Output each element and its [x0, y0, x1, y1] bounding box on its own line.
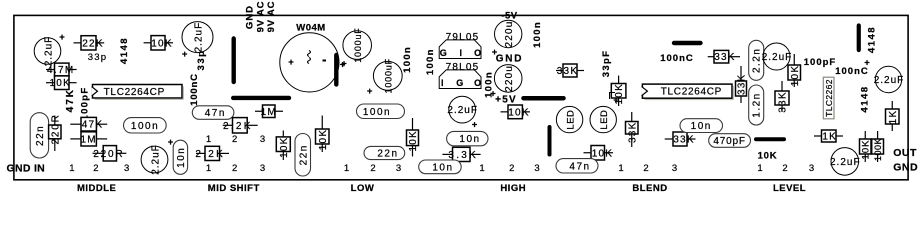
wire jumper (vertical, top right)	[857, 26, 861, 51]
svg-text:2.2uF: 2.2uF	[762, 52, 793, 63]
resistor 1K (output)	[886, 101, 900, 131]
svg-text:100n: 100n	[363, 107, 391, 118]
svg-text:100nC: 100nC	[189, 73, 200, 106]
svg-text:220R: 220R	[50, 113, 61, 144]
svg-text:3: 3	[260, 134, 265, 145]
svg-text:47K: 47K	[82, 120, 103, 131]
svg-text:1: 1	[757, 163, 762, 174]
svg-text:+: +	[59, 32, 65, 43]
resistor 33K (supply)	[556, 64, 584, 77]
svg-text:9V AC: 9V AC	[255, 1, 266, 33]
svg-text:+: +	[340, 60, 346, 71]
svg-text:22n: 22n	[377, 149, 398, 160]
svg-text:10K: 10K	[592, 148, 613, 159]
resistor 2.2K (lower)	[195, 146, 229, 160]
svg-text:1: 1	[206, 163, 211, 174]
svg-text:G: G	[440, 48, 447, 58]
resistor 10K (blend top)	[611, 76, 626, 106]
svg-text:I: I	[441, 78, 444, 88]
svg-text:+: +	[182, 49, 188, 60]
svg-text:2.2uF: 2.2uF	[151, 144, 162, 175]
svg-text:10K: 10K	[861, 140, 872, 160]
svg-text:33p: 33p	[88, 52, 107, 63]
resistor 2.2K (upper)	[223, 118, 258, 133]
svg-text:GND: GND	[893, 162, 918, 174]
svg-text:78L05: 78L05	[446, 62, 480, 73]
capacitor C2 2.2uF electrolytic (supply)	[182, 22, 213, 60]
svg-text:1: 1	[344, 163, 349, 174]
wire jumper (vertical, rectifier out)	[334, 55, 338, 85]
svg-text:79L05: 79L05	[446, 32, 480, 43]
resistor 1K (level)	[814, 130, 843, 143]
capacitor 1.2n	[749, 85, 764, 125]
resistor 220R (vertical)	[49, 113, 62, 151]
svg-text:MIDDLE: MIDDLE	[77, 183, 116, 194]
svg-text:220u: 220u	[504, 20, 515, 47]
svg-text:LED: LED	[565, 110, 576, 130]
svg-text:OUT: OUT	[893, 147, 917, 159]
capacitor 470pF	[709, 134, 751, 148]
svg-text:10K: 10K	[508, 107, 529, 118]
svg-text:470pF: 470pF	[713, 136, 745, 147]
svg-text:TLC2262: TLC2262	[824, 79, 834, 117]
svg-text:2.2K: 2.2K	[195, 149, 225, 160]
svg-text:33K: 33K	[778, 91, 789, 112]
svg-text:33K: 33K	[737, 74, 748, 95]
svg-text:2.2uF: 2.2uF	[447, 105, 478, 116]
resistor 1M	[70, 132, 107, 146]
svg-text:LED: LED	[599, 110, 610, 130]
svg-text:1M: 1M	[261, 107, 277, 118]
resistor 47K	[70, 117, 107, 131]
svg-text:100n: 100n	[402, 46, 413, 73]
resistor 4.7M	[46, 63, 77, 76]
svg-text:GND IN: GND IN	[7, 163, 46, 175]
svg-text:10n: 10n	[176, 147, 187, 168]
wire jumper (horizontal, +5V rail)	[524, 96, 564, 101]
svg-text:2.2uF: 2.2uF	[194, 22, 205, 53]
svg-text:4148: 4148	[867, 26, 878, 53]
svg-text:47n: 47n	[569, 161, 590, 172]
capacitor 220u (positive rail)	[494, 65, 522, 93]
svg-text:10K: 10K	[408, 130, 419, 151]
board outline frame	[14, 15, 908, 179]
resistor 22K	[74, 36, 105, 50]
svg-text:3: 3	[534, 163, 539, 174]
svg-text:100pF: 100pF	[804, 57, 836, 68]
capacitor 10n (high upper)	[447, 131, 488, 145]
svg-text:1K: 1K	[888, 110, 899, 125]
svg-text:4148: 4148	[119, 37, 130, 64]
capacitor 47n (mid pill)	[192, 106, 234, 120]
svg-text:BLEND: BLEND	[632, 183, 667, 194]
capacitor 2.2uF electrolytic (level top)	[762, 43, 793, 70]
capacitor 22n (low pill)	[364, 146, 405, 159]
svg-text:2.2uF: 2.2uF	[874, 75, 905, 86]
svg-text:1.2n: 1.2n	[752, 92, 763, 117]
svg-text:47n: 47n	[205, 108, 226, 119]
svg-text:10n: 10n	[432, 162, 453, 173]
svg-text:10n: 10n	[459, 134, 480, 145]
svg-text:22n: 22n	[35, 125, 46, 146]
resistor 33K (blend right)	[665, 132, 696, 146]
resistor 1M (mid)	[255, 105, 283, 118]
svg-text:9V AC: 9V AC	[266, 1, 277, 33]
capacitor 1000uF (lower)	[367, 58, 402, 97]
regulator 78L05	[439, 62, 481, 88]
svg-text:TLC2264CP: TLC2264CP	[104, 87, 165, 98]
svg-text:4148: 4148	[859, 85, 870, 112]
svg-text:10K: 10K	[790, 65, 801, 86]
capacitor C1 2.2uF electrolytic (input)	[34, 32, 65, 66]
svg-text:33K: 33K	[557, 66, 578, 77]
capacitor 22n (input pill)	[30, 113, 48, 158]
svg-text:2.2K: 2.2K	[223, 121, 253, 132]
capacitor 2.2uF electrolytic (output)	[874, 66, 905, 92]
svg-text:33K: 33K	[714, 52, 735, 63]
svg-text:2: 2	[643, 163, 648, 174]
svg-text:MID SHIFT: MID SHIFT	[208, 183, 260, 194]
node + (LED anode mark)	[610, 93, 620, 106]
svg-text:LOW: LOW	[351, 183, 375, 194]
resistor 10K (mid b)	[316, 116, 330, 153]
resistor 10K (top row)	[144, 36, 173, 50]
svg-text:100nC: 100nC	[660, 53, 694, 64]
svg-text:10K: 10K	[151, 38, 172, 49]
svg-text:1000uF: 1000uF	[383, 58, 393, 93]
capacitor 47n (blend pill)	[556, 159, 598, 173]
svg-text:4.7M: 4.7M	[47, 65, 74, 76]
capacitor 10n (vertical pill)	[173, 140, 187, 174]
svg-text:1: 1	[69, 163, 74, 174]
svg-text:3.3K: 3.3K	[448, 150, 478, 161]
resistor 10K (low)	[407, 118, 420, 157]
svg-text:1: 1	[479, 163, 484, 174]
wire jumper (vertical, power entry)	[231, 39, 235, 83]
svg-text:LEVEL: LEVEL	[773, 183, 806, 194]
svg-text:10K: 10K	[50, 78, 71, 89]
capacitor 2.2uF electrolytic (level out)	[830, 148, 861, 176]
resistor 100K (output divider)	[872, 131, 884, 162]
svg-text:3: 3	[809, 163, 814, 174]
svg-text:220R: 220R	[93, 149, 124, 160]
wire jumper (horizontal, below rectifier)	[233, 96, 289, 100]
wire jumper (horizontal, level)	[756, 137, 784, 141]
svg-text:I: I	[460, 48, 463, 58]
resistor 10K (+5V pullup)	[501, 105, 531, 119]
svg-text:1: 1	[618, 163, 623, 174]
svg-text:100n: 100n	[532, 21, 543, 48]
capacitor 100n (low pill)	[357, 104, 405, 119]
svg-text:+: +	[613, 95, 619, 106]
svg-text:100K: 100K	[873, 138, 883, 161]
svg-text:+: +	[472, 120, 478, 131]
svg-text:22n: 22n	[298, 144, 309, 165]
svg-text:10K: 10K	[279, 136, 290, 157]
svg-text:100n: 100n	[131, 121, 159, 132]
svg-text:2: 2	[370, 163, 375, 174]
resistor 33K (u2 feedback)	[736, 66, 748, 103]
svg-text:G: G	[456, 78, 463, 88]
svg-text:3: 3	[396, 163, 401, 174]
svg-text:O: O	[474, 48, 481, 58]
capacitor 10n (blend pill)	[680, 119, 723, 133]
svg-text:47K: 47K	[65, 88, 76, 112]
bridge rectifier W04M	[280, 23, 339, 92]
resistor 33K (led)	[626, 112, 639, 147]
resistor 33K (level b)	[775, 81, 789, 113]
svg-text:2: 2	[232, 134, 237, 145]
svg-text:GND: GND	[245, 5, 256, 29]
svg-text:33K: 33K	[673, 135, 694, 146]
capacitor 100n (middle pill)	[124, 118, 167, 133]
svg-text:2: 2	[782, 163, 787, 174]
op-amp U3 TLC2262	[823, 77, 834, 119]
svg-text:33pF: 33pF	[601, 50, 612, 77]
LED D2 indicator	[556, 106, 582, 132]
capacitor 2.2n	[749, 40, 764, 80]
svg-text:+: +	[864, 57, 870, 68]
resistor 10K (bias)	[46, 76, 77, 90]
svg-text:TLC2264CP: TLC2264CP	[661, 87, 722, 98]
svg-text:10K: 10K	[758, 150, 778, 161]
svg-text:10n: 10n	[691, 121, 712, 132]
capacitor 220u (negative rail)	[495, 20, 522, 47]
resistor 10K (output divider)	[860, 131, 872, 162]
capacitor 10n (high lower)	[419, 160, 462, 174]
svg-text:33p: 33p	[196, 50, 207, 71]
resistor 220R (horizontal)	[93, 146, 127, 161]
LED D3 indicator	[590, 106, 616, 132]
capacitor 2.2uF electrolytic (middle)	[141, 137, 174, 175]
svg-text:3: 3	[260, 163, 265, 174]
svg-text:10K: 10K	[318, 129, 329, 150]
resistor 33K (u2 top)	[708, 50, 740, 63]
capacitor 2.2uF electrolytic (high)	[447, 96, 478, 130]
regulator 79L05	[439, 32, 481, 58]
svg-text:100pF: 100pF	[79, 87, 90, 121]
resistor 10K (mid a)	[276, 131, 290, 161]
op-amp U2 TLC2264CP	[642, 84, 734, 100]
resistor 10K (blend)	[584, 146, 614, 161]
resistor 10K (level a)	[788, 54, 801, 87]
svg-text:1000uF: 1000uF	[353, 27, 363, 62]
wire jumper (horizontal, above U2)	[674, 41, 701, 45]
capacitor 1000uF (upper)	[340, 27, 372, 70]
svg-text:220u: 220u	[504, 65, 515, 92]
svg-text:33K: 33K	[627, 122, 638, 143]
svg-text:+: +	[288, 57, 294, 68]
svg-text:+: +	[367, 86, 373, 97]
svg-text:2: 2	[93, 163, 98, 174]
svg-text:GND: GND	[496, 53, 524, 64]
svg-text:+5V: +5V	[495, 94, 517, 105]
svg-text:O: O	[474, 78, 481, 88]
svg-text:2.2uF: 2.2uF	[830, 157, 861, 168]
svg-text:1M: 1M	[81, 134, 97, 145]
svg-text:W04M: W04M	[296, 23, 325, 34]
wire jumper (vertical, high)	[548, 127, 552, 155]
svg-text:2: 2	[232, 163, 237, 174]
resistor 3.3K	[442, 147, 480, 161]
svg-text:1: 1	[206, 134, 211, 145]
svg-text:2: 2	[509, 163, 514, 174]
capacitor 22n (mid pill)	[295, 134, 311, 177]
op-amp U1 TLC2264CP	[92, 85, 184, 100]
svg-text:2.2uF: 2.2uF	[44, 36, 55, 67]
svg-text:3: 3	[124, 163, 129, 174]
svg-text:HIGH: HIGH	[500, 183, 526, 194]
svg-text:22K: 22K	[82, 38, 103, 49]
svg-text:1K: 1K	[822, 132, 837, 143]
svg-text:3: 3	[672, 163, 677, 174]
svg-text:100n: 100n	[425, 48, 436, 75]
